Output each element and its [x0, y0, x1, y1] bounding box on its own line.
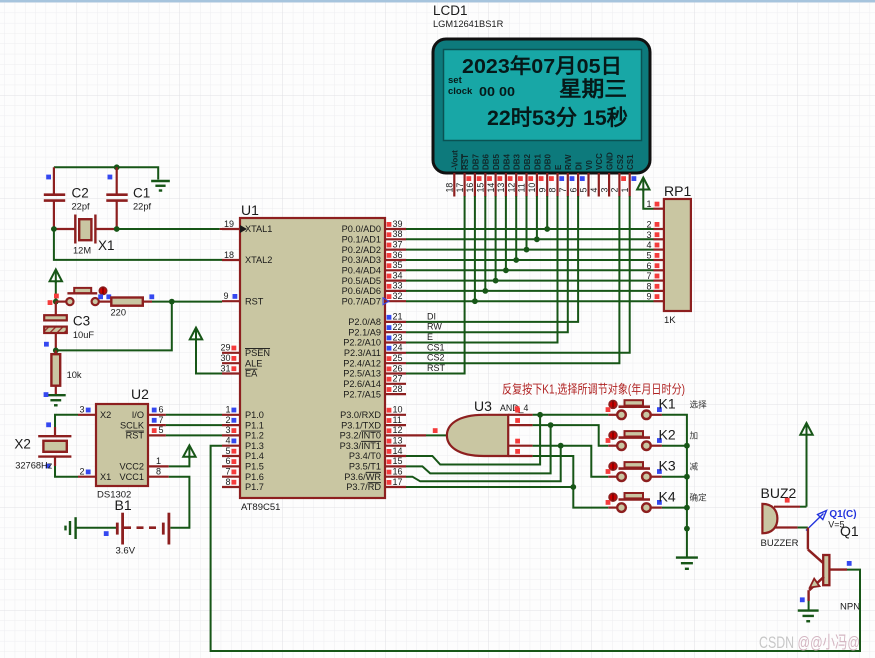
resistor 220 [99, 294, 154, 317]
svg-text:set: set [448, 75, 463, 86]
svg-text:3: 3 [79, 405, 84, 415]
wire K3 right join [662, 474, 690, 480]
wire K1 right common [662, 415, 687, 557]
svg-text:12: 12 [506, 183, 516, 193]
wire LCD DB4 to P0.4 bus [503, 196, 509, 273]
U2 pin 3 stub [78, 405, 96, 415]
U2 pin 5 RST stub [148, 425, 166, 435]
svg-text:C3: C3 [73, 314, 90, 329]
svg-text:13: 13 [393, 436, 403, 446]
C2 labels [72, 186, 91, 212]
svg-text:X1: X1 [98, 238, 115, 253]
svg-text:220: 220 [111, 308, 127, 318]
svg-text:P3.6/WR: P3.6/WR [344, 472, 381, 482]
svg-text:2: 2 [225, 415, 230, 425]
wire P0.5 to RP1 pin 7 [406, 280, 654, 282]
svg-text:P0.4/AD4: P0.4/AD4 [342, 266, 381, 276]
push button K4 [606, 488, 707, 512]
U1 pins 39-32 P0 stubs [342, 219, 406, 307]
svg-text:30: 30 [220, 353, 230, 363]
battery B1 [104, 513, 169, 545]
svg-text:14: 14 [486, 183, 496, 193]
svg-text:XTAL1: XTAL1 [245, 224, 272, 234]
LCD pin name labels [451, 150, 635, 170]
svg-text:V0: V0 [585, 160, 594, 170]
U2 pin 7 SCLK stub [148, 415, 166, 425]
svg-text:减: 减 [690, 461, 699, 472]
wire LCD DB6 to P0.6 bus [482, 196, 488, 294]
svg-text:P3.5/T1: P3.5/T1 [349, 462, 381, 472]
wire P3.7 to K4 net [406, 484, 576, 490]
wire Q1 base to P1.3 [211, 446, 860, 651]
svg-text:10k: 10k [67, 370, 82, 380]
svg-text:RW: RW [427, 322, 442, 332]
svg-text:19: 19 [224, 219, 234, 229]
svg-text:34: 34 [393, 270, 403, 280]
svg-text:PSEN: PSEN [245, 348, 270, 358]
svg-text:22pf: 22pf [133, 202, 152, 212]
svg-text:18: 18 [224, 250, 234, 260]
wire 220 to U1 RST [152, 299, 222, 305]
svg-text:clock: clock [448, 86, 473, 97]
wire LCD R/W vertical [406, 196, 568, 332]
svg-text:26: 26 [393, 363, 403, 373]
Q1 label [840, 523, 859, 539]
svg-text:P2.7/A15: P2.7/A15 [343, 389, 381, 399]
node C3-10k junction [53, 348, 59, 354]
svg-text:22pf: 22pf [72, 202, 91, 212]
U1 pin 29 PSEN stub [220, 343, 270, 358]
svg-text:13: 13 [496, 183, 506, 193]
svg-text:ALE: ALE [245, 358, 262, 368]
U2 pin 1 VCC2 stub [148, 456, 169, 466]
AND gate U3 body [447, 415, 508, 456]
svg-text:CS2: CS2 [427, 353, 445, 363]
svg-text:加: 加 [690, 431, 699, 441]
ground at 10k [44, 392, 66, 405]
wire SCLK to P1.1 [166, 424, 222, 426]
net label CS1 [427, 342, 445, 352]
svg-text:SCLK: SCLK [120, 420, 145, 430]
svg-text:DB6: DB6 [482, 153, 491, 170]
svg-text:P0.1/AD1: P0.1/AD1 [342, 235, 381, 245]
RP1 value 1K [664, 315, 676, 326]
svg-text:CSDN @@小冯@: CSDN @@小冯@ [759, 633, 860, 652]
wire K4 right join [662, 505, 690, 511]
svg-text:1: 1 [646, 199, 651, 209]
wire P0.4 to RP1 pin 6 [406, 269, 654, 271]
svg-text:P2.0/A8: P2.0/A8 [348, 317, 381, 327]
svg-text:确定: 确定 [690, 491, 708, 502]
svg-text:P3.2/INT0: P3.2/INT0 [340, 431, 381, 441]
svg-text:RST: RST [461, 154, 470, 170]
svg-text:DB5: DB5 [492, 153, 501, 170]
svg-text:X1: X1 [100, 472, 111, 482]
svg-text:P2.2/A10: P2.2/A10 [343, 338, 381, 348]
svg-text:22时53分 15秒: 22时53分 15秒 [487, 106, 628, 130]
svg-text:4: 4 [225, 436, 230, 446]
wire P3.5 to K2 net [406, 422, 553, 473]
U2 pin 8 VCC1 stub [148, 467, 169, 477]
microcontroller U1 AT89C51 body [240, 218, 385, 498]
svg-text:P1.6: P1.6 [245, 472, 264, 482]
svg-text:P0.5/AD5: P0.5/AD5 [342, 276, 381, 286]
wire LCD CS2 vertical [406, 196, 619, 363]
ground at Q1 emitter [798, 611, 819, 622]
svg-text:1: 1 [225, 405, 230, 415]
svg-text:11: 11 [517, 183, 527, 192]
wire RST to P1.2 [166, 434, 222, 436]
LCD pin stubs and numbers [445, 173, 637, 197]
U2 pin 2 stub [78, 467, 96, 477]
svg-text:P0.0/AD0: P0.0/AD0 [342, 224, 381, 234]
wire K2 right join [662, 443, 690, 449]
svg-text:Q1: Q1 [840, 523, 859, 539]
wire gate input4 to K4 [533, 456, 609, 508]
svg-text:12M: 12M [73, 246, 91, 256]
wire gate input2 to K2 [533, 425, 609, 446]
LCD1 label [433, 3, 504, 29]
wire X2 bottom to U2 [55, 466, 78, 477]
transistor Q1 NPN [800, 528, 852, 611]
svg-text:21: 21 [393, 312, 403, 322]
wire LCD CS1 vertical [406, 196, 630, 353]
RTC U2 DS1302 body [96, 404, 148, 486]
wire LCD DB5 to P0.5 bus [493, 196, 499, 284]
svg-text:Q1(C): Q1(C) [829, 509, 856, 520]
svg-text:33: 33 [393, 281, 403, 291]
svg-text:K1: K1 [659, 396, 676, 412]
wire LCD E vertical [406, 196, 558, 343]
node RST junction [48, 294, 59, 305]
svg-text:32: 32 [393, 291, 403, 301]
svg-text:6: 6 [568, 188, 578, 193]
svg-text:P2.1/A9: P2.1/A9 [348, 327, 381, 337]
resistor pack RP1 [664, 199, 691, 311]
svg-text:3: 3 [599, 188, 609, 193]
svg-text:9: 9 [223, 291, 228, 301]
RP1 pin stubs 1-9 [646, 199, 663, 302]
svg-text:P1.0: P1.0 [245, 410, 264, 420]
svg-text:8: 8 [225, 477, 230, 487]
svg-text:4: 4 [589, 188, 599, 193]
wire P3.6 to K3 net [406, 443, 564, 481]
B1 label [115, 497, 132, 513]
svg-text:P0.3/AD3: P0.3/AD3 [342, 255, 381, 265]
svg-text:7: 7 [159, 415, 164, 425]
svg-text:DI: DI [575, 162, 584, 170]
wire I/O to P1.0 [166, 414, 222, 416]
svg-text:DB1: DB1 [533, 153, 542, 170]
svg-text:2: 2 [79, 467, 84, 477]
U3 label [474, 398, 528, 414]
svg-text:5: 5 [225, 446, 230, 456]
ground at battery [66, 517, 76, 539]
U1 pins 1-8 P1.0-P1.7 stubs [222, 405, 264, 493]
crystal X1 [56, 215, 115, 244]
wire P0.2 to RP1 pin 4 [406, 249, 654, 251]
net label RST [427, 363, 446, 373]
wire LCD DB1 to P0.1 bus [534, 196, 540, 242]
svg-text:16: 16 [393, 467, 403, 477]
svg-text:32768Hz: 32768Hz [15, 460, 53, 470]
svg-text:P3.4/T0: P3.4/T0 [349, 451, 381, 461]
wire VCC1 to battery [169, 477, 190, 528]
svg-text:DB7: DB7 [471, 153, 480, 170]
svg-text:C1: C1 [133, 186, 150, 201]
U1 pin 19 XTAL1 stub [222, 219, 272, 234]
U2 part number DS1302 [97, 490, 131, 501]
U1 pin 31 EA stub [220, 363, 258, 378]
svg-text:P1.7: P1.7 [245, 482, 264, 492]
svg-text:VCC1: VCC1 [119, 472, 144, 482]
svg-text:P1.5: P1.5 [245, 462, 264, 472]
wire LCD RST vertical [406, 196, 465, 374]
svg-text:10: 10 [527, 183, 537, 193]
svg-text:6: 6 [159, 405, 164, 415]
svg-text:RP1: RP1 [664, 183, 691, 199]
svg-text:K3: K3 [659, 458, 676, 474]
B1 value 3.6V [116, 546, 136, 557]
wire gate input1 to K1 [533, 414, 609, 416]
svg-text:24: 24 [393, 343, 403, 353]
C1 labels [133, 186, 152, 212]
svg-text:-Vout: -Vout [451, 150, 460, 170]
svg-text:LGM12641BS1R: LGM12641BS1R [433, 19, 504, 29]
svg-text:2: 2 [610, 188, 620, 193]
svg-text:10uF: 10uF [73, 330, 95, 340]
capacitor C2 [44, 167, 65, 229]
svg-text:2023年07月05日: 2023年07月05日 [462, 54, 622, 78]
svg-text:5: 5 [579, 188, 589, 193]
svg-text:P2.4/A12: P2.4/A12 [343, 358, 381, 368]
C3 labels [73, 314, 95, 341]
svg-text:选择: 选择 [690, 399, 708, 410]
svg-text:CS2: CS2 [616, 154, 625, 170]
svg-text:VCC: VCC [595, 153, 604, 170]
svg-text:31: 31 [220, 363, 230, 373]
svg-text:X2: X2 [14, 437, 31, 452]
svg-text:P3.1/TXD: P3.1/TXD [341, 420, 381, 430]
annotation text [502, 383, 685, 397]
wire P3.2 to gate output [406, 428, 447, 435]
LCD LCD1 body [433, 39, 650, 173]
svg-text:RST: RST [245, 296, 264, 306]
ground at buttons [676, 558, 698, 569]
svg-text:5: 5 [159, 425, 164, 435]
svg-text:反复按下K1,选择所调节对象(年月日时分): 反复按下K1,选择所调节对象(年月日时分) [502, 383, 685, 397]
wire buzzer bottom [798, 527, 808, 529]
LCD text time line [487, 106, 628, 130]
svg-text:10: 10 [393, 405, 403, 415]
push button K3 [606, 458, 699, 482]
net label DI [427, 311, 436, 321]
U1 pin 9 RST stub [222, 291, 264, 306]
svg-text:3.6V: 3.6V [116, 546, 136, 557]
svg-text:28: 28 [393, 384, 403, 394]
svg-text:RST: RST [427, 363, 446, 373]
svg-text:VCC2: VCC2 [119, 462, 144, 472]
U2 pin names [100, 410, 145, 482]
svg-text:15: 15 [393, 456, 403, 466]
wire LCD DB0 to P0.0 bus [544, 196, 550, 232]
wire LCD DB2 to P0.2 bus [524, 196, 530, 253]
svg-text:P3.0/RXD: P3.0/RXD [340, 410, 381, 420]
svg-text:1K: 1K [664, 315, 676, 326]
wire LCD DB3 to P0.3 bus [513, 196, 519, 263]
watermark [759, 633, 860, 652]
power VCC arrow at buzzer [800, 423, 812, 507]
svg-text:U2: U2 [131, 386, 149, 402]
svg-text:P2.6/A14: P2.6/A14 [343, 379, 381, 389]
node XTAL2 wire [54, 229, 222, 260]
power VCC arrow at EA [190, 328, 222, 374]
svg-text:7: 7 [558, 188, 568, 193]
svg-text:16: 16 [465, 183, 475, 193]
U1 pins 21-28 P2 stubs [343, 312, 406, 400]
svg-text:23: 23 [393, 332, 403, 342]
buzzer BUZ2 [762, 504, 800, 533]
ground at C1 [151, 181, 170, 191]
svg-text:DB2: DB2 [523, 153, 532, 170]
U3 input stubs [508, 408, 532, 456]
U1 pin 30 ALE stub [220, 353, 262, 368]
wire arrow to RST node [55, 281, 57, 301]
LCD text date line [462, 54, 622, 78]
svg-text:15: 15 [476, 183, 486, 193]
svg-text:DB0: DB0 [544, 153, 553, 170]
power VCC arrow at RP1 [637, 178, 653, 209]
svg-text:6: 6 [225, 456, 230, 466]
svg-text:35: 35 [393, 260, 403, 270]
svg-text:I/O: I/O [132, 410, 144, 420]
svg-text:3: 3 [225, 425, 230, 435]
svg-text:BUZ2: BUZ2 [761, 485, 797, 501]
svg-text:1: 1 [156, 456, 161, 466]
U1 pins 10-17 P3 stubs [340, 405, 406, 493]
svg-text:U3: U3 [474, 398, 492, 414]
U1 part number AT89C51 [241, 502, 280, 513]
BUZ2 label [761, 485, 797, 503]
svg-text:RST: RST [126, 431, 145, 441]
U1 pin32 edge marker [383, 298, 389, 305]
svg-text:AND_4: AND_4 [500, 403, 528, 413]
svg-text:P3.7/RD: P3.7/RD [346, 482, 381, 492]
svg-text:E: E [427, 332, 433, 342]
svg-text:X2: X2 [100, 410, 111, 420]
BUZZER type label [761, 538, 799, 549]
net label E [427, 332, 433, 342]
svg-text:B1: B1 [115, 497, 132, 513]
svg-text:17: 17 [393, 477, 403, 487]
svg-text:39: 39 [393, 219, 403, 229]
wire gate input3 to K3 [533, 446, 609, 477]
reset push button [56, 287, 111, 305]
wire LCD DB7 to P0.7 bus [472, 196, 478, 304]
svg-text:C2: C2 [72, 186, 89, 201]
svg-text:DB3: DB3 [513, 153, 522, 170]
X2 value 32768Hz [15, 460, 53, 470]
wire RST node down [56, 302, 172, 351]
wire P0.0 to RP1 pin 2 [406, 228, 654, 230]
U2 pin 6 I/O stub [148, 405, 166, 415]
push button K1 [606, 396, 707, 420]
svg-text:22: 22 [393, 322, 403, 332]
svg-text:12: 12 [393, 425, 403, 435]
svg-text:E: E [554, 164, 563, 170]
svg-text:P1.2: P1.2 [245, 431, 264, 441]
wire P0.7 to RP1 pin 9 [406, 300, 654, 302]
svg-text:K4: K4 [659, 488, 676, 504]
svg-text:25: 25 [393, 353, 403, 363]
capacitor C3 [44, 302, 67, 351]
wire battery left [76, 527, 116, 529]
power VCC arrow at VCC2 [169, 445, 196, 466]
wire X2 top to U2 [55, 415, 78, 427]
net label CS2 [427, 353, 445, 363]
voltage probe Q1(C) [806, 509, 857, 531]
LCD text weekday [559, 78, 627, 101]
net label RW [427, 322, 442, 332]
wire P0.1 to RP1 pin 3 [406, 238, 654, 240]
svg-text:R/W: R/W [564, 154, 573, 170]
svg-text:P2.5/A13: P2.5/A13 [343, 369, 381, 379]
svg-text:P0.6/AD6: P0.6/AD6 [342, 286, 381, 296]
svg-text:14: 14 [393, 446, 403, 456]
svg-text:U1: U1 [241, 202, 259, 218]
svg-text:K2: K2 [659, 427, 676, 443]
svg-text:38: 38 [393, 229, 403, 239]
svg-text:LCD1: LCD1 [433, 3, 468, 18]
svg-text:P1.1: P1.1 [245, 420, 264, 430]
NPN type label [840, 602, 860, 613]
wire buzzer top [800, 506, 807, 508]
resistor 10k [51, 350, 82, 394]
U2 label [131, 386, 149, 402]
svg-text:P0.2/AD2: P0.2/AD2 [342, 245, 381, 255]
wire P0.6 to RP1 pin 8 [406, 290, 654, 292]
svg-text:27: 27 [393, 374, 403, 384]
svg-text:星期三: 星期三 [559, 78, 627, 101]
LCD text set clock [448, 75, 515, 99]
svg-text:CS1: CS1 [626, 154, 635, 170]
svg-text:29: 29 [220, 343, 230, 353]
svg-text:P0.7/AD7: P0.7/AD7 [342, 296, 381, 306]
wire C2-C1 top to ground [54, 164, 158, 179]
svg-text:AT89C51: AT89C51 [241, 502, 280, 513]
power VCC arrow at reset [50, 269, 62, 283]
svg-text:CS1: CS1 [427, 342, 445, 352]
resistor pack RP1 label [664, 183, 691, 199]
wire LCD DI vertical [406, 196, 578, 322]
svg-text:P1.3: P1.3 [245, 441, 264, 451]
svg-text:P1.4: P1.4 [245, 451, 264, 461]
crystal X2 [38, 422, 71, 468]
node below K4 [684, 526, 690, 532]
svg-text:NPN: NPN [840, 602, 860, 613]
svg-text:8: 8 [548, 188, 558, 193]
node XTAL1 wire [51, 226, 222, 232]
svg-text:17: 17 [455, 183, 465, 193]
X2 label [14, 437, 31, 452]
svg-text:P2.3/A11: P2.3/A11 [344, 348, 381, 358]
svg-text:DB4: DB4 [502, 153, 511, 170]
svg-text:7: 7 [225, 467, 230, 477]
capacitor C1 [106, 167, 127, 229]
wire P3.4 to K1 net [406, 412, 543, 465]
U1 pin 18 XTAL2 stub [222, 250, 272, 265]
svg-text:36: 36 [393, 250, 403, 260]
